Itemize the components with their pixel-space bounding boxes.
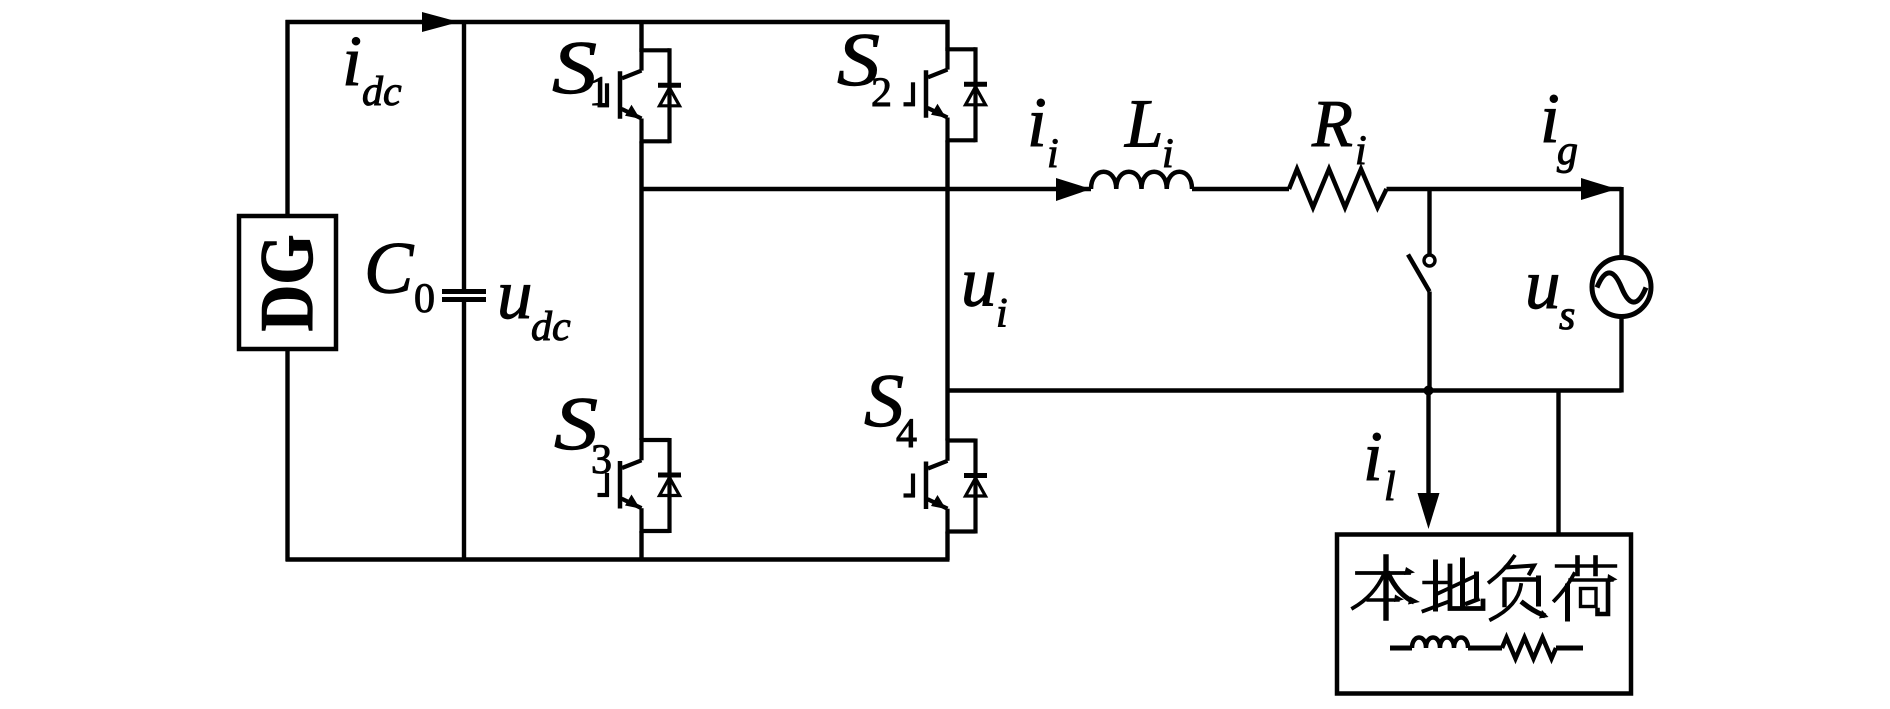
DG source box (239, 216, 336, 349)
local load box (1337, 535, 1631, 694)
load middle lead (1468, 646, 1502, 651)
AC source sine (1597, 273, 1646, 302)
inductor Li (1091, 172, 1192, 189)
load inductor coil (1412, 638, 1468, 649)
svg-text:u: u (497, 256, 533, 334)
char he (load2) (1555, 558, 1618, 620)
svg-text:2: 2 (871, 70, 892, 116)
wire: DG leg upper (285, 20, 289, 216)
wire: load right branch (1556, 391, 1560, 535)
IGBT S2 (904, 47, 988, 142)
svg-text:i: i (1363, 418, 1383, 496)
arrow il (1418, 493, 1440, 529)
svg-text:R: R (1311, 87, 1353, 161)
svg-text:i: i (1027, 84, 1047, 162)
svg-text:0: 0 (414, 276, 435, 322)
svg-text:1: 1 (589, 69, 610, 115)
wire: leg1 below S3 to bottom rail (639, 531, 643, 560)
load inductor lead (1390, 646, 1412, 651)
svg-text:C: C (364, 228, 415, 310)
char ben (local) (1353, 557, 1420, 618)
wire: middle output wire ui node (642, 187, 1092, 191)
wire: between Li and Ri (1192, 187, 1289, 191)
svg-text:u: u (961, 244, 997, 322)
svg-text:i: i (1162, 131, 1174, 177)
wire: DC bus lower (462, 302, 466, 559)
wire: lower output wire (948, 388, 1622, 392)
resistor Ri zigzag (1289, 169, 1387, 208)
svg-text:i: i (1047, 131, 1059, 177)
svg-text:i: i (996, 291, 1008, 337)
label local load (ben di fu he) drawn strokes (1353, 557, 1618, 620)
svg-text:s: s (1559, 293, 1575, 339)
svg-text:dc: dc (362, 69, 402, 115)
wire: top from DG to bus (286, 20, 463, 24)
wire: Ri to grid corner (1387, 187, 1622, 191)
switch blade (1408, 255, 1430, 292)
arrow idc (422, 12, 459, 32)
wire: leg2 between S2 and S4 (945, 140, 949, 440)
wire: il branch (1426, 391, 1430, 498)
load resistor zigzag (1502, 638, 1556, 659)
AC source us circle (1592, 258, 1651, 317)
junction dot (1424, 386, 1434, 396)
svg-text:l: l (1384, 464, 1396, 510)
wire: DG leg lower (285, 349, 289, 561)
wire: DC bus upper (462, 22, 466, 289)
svg-text:i: i (342, 21, 362, 101)
switch upper lead (1427, 189, 1431, 255)
wire: leg2 from top rail to S2 (945, 20, 949, 51)
svg-text:dc: dc (531, 304, 571, 350)
wire: leg1 from top rail to S1 (639, 20, 643, 52)
svg-text:3: 3 (591, 437, 612, 483)
switch contact circle (1424, 255, 1435, 266)
IGBT S4 (904, 439, 988, 534)
wire: top rail of bridge (462, 20, 950, 24)
capacitor C0 plates (442, 289, 486, 294)
wire: grid leg upper (1619, 187, 1623, 256)
svg-text:L: L (1124, 86, 1163, 162)
char di (ground) (1424, 560, 1484, 611)
svg-text:DG: DG (245, 235, 329, 332)
IGBT S1 (598, 48, 682, 143)
wire: bottom rail (286, 557, 950, 561)
IGBT S3 (598, 438, 682, 533)
svg-text:g: g (1557, 128, 1578, 174)
wire: grid leg lower (1619, 318, 1623, 393)
svg-text:u: u (1525, 246, 1561, 324)
svg-text:4: 4 (896, 411, 917, 457)
load right lead (1556, 646, 1583, 651)
wire: leg1 between S1 and S3 (639, 141, 643, 440)
arrow ig (1581, 178, 1617, 200)
svg-text:i: i (1355, 128, 1367, 174)
char fu (load) (1490, 557, 1549, 620)
switch lower lead (1427, 292, 1431, 391)
wire: leg2 below S4 to bottom rail (945, 532, 949, 561)
arrow ii (1056, 178, 1091, 201)
